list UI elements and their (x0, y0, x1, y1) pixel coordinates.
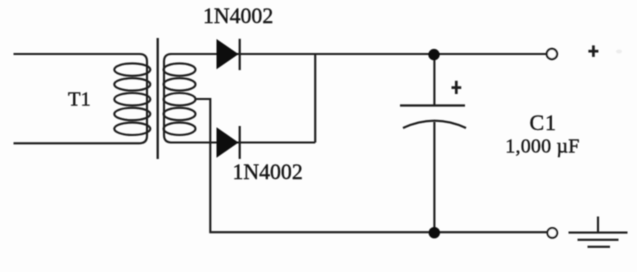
svg-text:1N4002: 1N4002 (233, 160, 303, 184)
svg-text:C1: C1 (530, 110, 557, 135)
svg-text:1N4002: 1N4002 (203, 4, 273, 28)
svg-text:T1: T1 (68, 89, 91, 111)
svg-text:1,000 µF: 1,000 µF (505, 135, 579, 157)
